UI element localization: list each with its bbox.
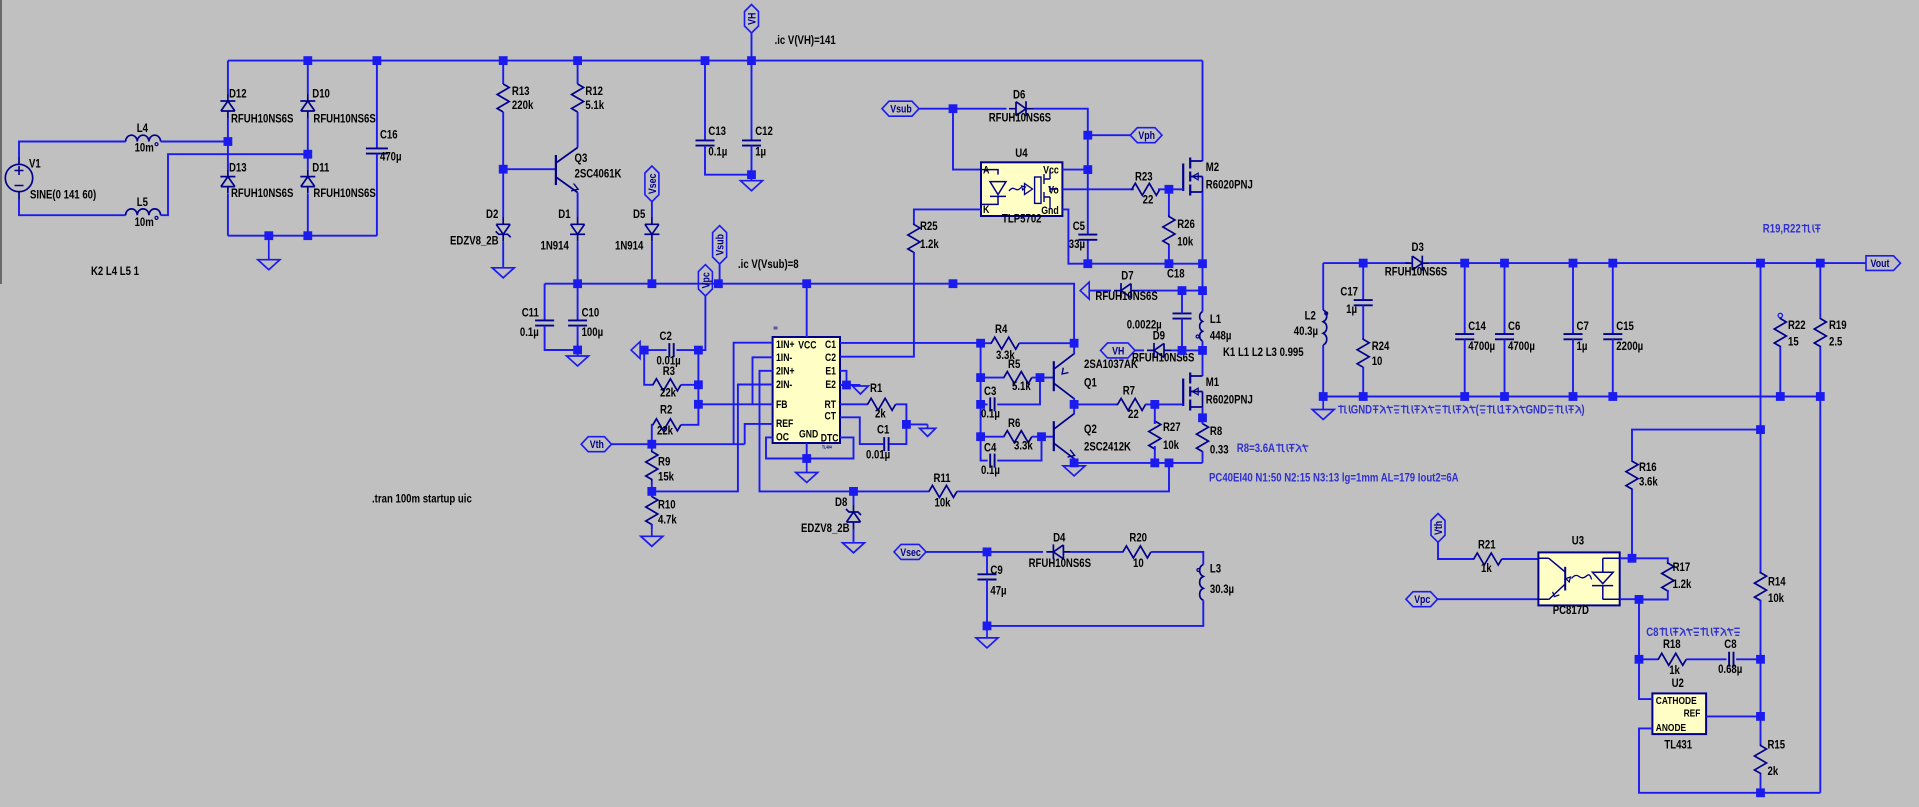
- ground Q2: [1063, 463, 1085, 476]
- svg-text:Q3: Q3: [575, 151, 588, 165]
- svg-text:EDZV8_2B: EDZV8_2B: [450, 234, 499, 248]
- svg-text:R14: R14: [1768, 574, 1786, 588]
- junction R6 C4: [1037, 432, 1046, 441]
- svg-text:ANODE: ANODE: [1656, 722, 1686, 734]
- wire C18 top lead: [1181, 291, 1183, 314]
- wire driver to R7: [1074, 403, 1118, 405]
- junction C18 bottom: [1178, 346, 1187, 355]
- svg-text:1N914: 1N914: [541, 239, 570, 253]
- svg-text:1.2k: 1.2k: [1673, 577, 1692, 591]
- wire Vout divider upper: [1760, 430, 1762, 574]
- wire Q1 collector lead: [1073, 398, 1075, 405]
- svg-text:C16: C16: [380, 128, 398, 142]
- capacitor C1: [884, 437, 888, 451]
- capacitor C2: [669, 343, 673, 357]
- wire C17 to R24: [1362, 305, 1364, 339]
- wire C16 top lead: [376, 61, 378, 149]
- ground R10: [641, 529, 663, 546]
- svg-text:D1: D1: [558, 207, 571, 221]
- svg-text:D9: D9: [1153, 329, 1166, 343]
- svg-text:R22: R22: [1788, 318, 1806, 332]
- wire D12 top lead: [227, 61, 229, 94]
- junction Vsub flag: [714, 279, 723, 288]
- wire R17 bottom: [1639, 590, 1668, 600]
- svg-text:100µ: 100µ: [582, 325, 604, 339]
- ground secondary: [1312, 397, 1334, 420]
- comment transformer spec: [1209, 470, 1459, 484]
- wire C2 right lead: [676, 349, 698, 351]
- shunt regulator U2 TL431: [1652, 693, 1706, 734]
- wire L4 to bridge node: [161, 141, 228, 143]
- wire R6 to Q2 base: [1032, 436, 1054, 438]
- svg-text:V1: V1: [29, 156, 41, 170]
- junction Vcc tap: [1083, 165, 1092, 174]
- wire REF jog: [745, 424, 773, 444]
- svg-text:22: 22: [1143, 193, 1154, 207]
- wire FB column: [681, 350, 698, 425]
- wire R13 bottom lead: [502, 112, 504, 169]
- ground D2: [492, 267, 514, 278]
- ground bridge: [258, 236, 280, 270]
- svg-text:0.1µ: 0.1µ: [981, 407, 1000, 421]
- svg-text:C10: C10: [582, 306, 600, 320]
- capacitor C17: [1354, 300, 1373, 305]
- resistor R23: [1132, 183, 1160, 195]
- diode D5: [644, 217, 659, 241]
- svg-text:10m: 10m: [135, 215, 154, 229]
- wire R26 top lead: [1168, 189, 1170, 215]
- svg-text:47µ: 47µ: [990, 584, 1006, 598]
- svg-text:4700µ: 4700µ: [1508, 339, 1535, 353]
- junction R18 left: [1635, 655, 1644, 664]
- junction C13 top: [701, 56, 710, 65]
- svg-text:R16: R16: [1639, 460, 1657, 474]
- svg-text:PC817D: PC817D: [1553, 603, 1590, 617]
- junction C6 top: [1500, 259, 1509, 268]
- svg-text:10: 10: [1372, 354, 1383, 368]
- ground E1E2: [852, 385, 868, 394]
- wire C17 top lead: [1362, 263, 1364, 300]
- svg-text:DTC: DTC: [821, 433, 839, 445]
- ground C10: [567, 350, 589, 366]
- wire R12 bottom lead: [577, 112, 579, 148]
- resistor R27: [1149, 421, 1161, 449]
- wire Vth to R21: [1438, 542, 1474, 559]
- resistor R16: [1626, 461, 1638, 490]
- junction Q3 base node: [499, 165, 508, 174]
- net flag Vout: [1866, 256, 1901, 271]
- wire R5 left lead: [981, 377, 1004, 379]
- wire D8 top lead: [853, 491, 855, 505]
- svg-text:L5: L5: [137, 195, 148, 209]
- ground C9: [976, 626, 998, 648]
- wire R24 bottom lead: [1362, 367, 1364, 397]
- svg-text:1: 1: [1500, 402, 1506, 416]
- junction bridge left mid: [224, 137, 233, 146]
- svg-text:R20: R20: [1129, 530, 1147, 544]
- svg-text:D7: D7: [1121, 269, 1134, 283]
- junction feedback top: [1756, 259, 1765, 268]
- wire D6 to C5 column: [1033, 109, 1088, 235]
- svg-text:K1 L1 L2 L3 0.995: K1 L1 L2 L3 0.995: [1223, 345, 1304, 359]
- wire TL431 ref: [1706, 715, 1760, 717]
- junction C14 top: [1460, 259, 1469, 268]
- diode D4: [1046, 544, 1070, 559]
- wire U4 Gnd to source rail: [1062, 209, 1202, 263]
- resistor R19: [1814, 318, 1826, 347]
- junction R22 gnd: [1776, 392, 1785, 401]
- wire R10 bottom lead: [651, 524, 653, 529]
- svg-text:R25: R25: [920, 219, 938, 233]
- svg-text:C18: C18: [1167, 266, 1185, 280]
- wire TL431 cathode: [1639, 659, 1652, 699]
- wire C3 right lead: [997, 378, 1040, 405]
- junction R26 top: [1165, 185, 1174, 194]
- diode D9: [1147, 343, 1171, 358]
- wire Vout to divider: [1760, 263, 1762, 430]
- junction R16 row: [1756, 425, 1765, 434]
- wire C11 bottom lead: [545, 326, 578, 350]
- diode D7: [1114, 283, 1138, 298]
- net flag Vth: [581, 437, 611, 452]
- junction D10 top: [303, 56, 312, 65]
- svg-text:Vpc: Vpc: [1414, 594, 1430, 606]
- svg-text:C1: C1: [877, 423, 890, 437]
- resistor R13: [497, 84, 509, 112]
- wire C16 bottom lead: [376, 154, 378, 236]
- wire R19 top lead: [1819, 263, 1821, 318]
- wire R27 top lead: [1154, 404, 1156, 424]
- svg-text:1IN+: 1IN+: [776, 339, 795, 351]
- svg-text:D6: D6: [1013, 87, 1026, 101]
- junction C14 gnd: [1460, 392, 1469, 401]
- svg-text:RFUH10NS6S: RFUH10NS6S: [1029, 556, 1091, 570]
- wire D12 bottom lead: [227, 118, 229, 142]
- wire R7 to M1 gate: [1145, 403, 1183, 405]
- svg-text:D5: D5: [633, 207, 646, 221]
- inductor L3 aux winding: [1197, 565, 1203, 601]
- junction FB: [694, 400, 703, 409]
- junction E1 E2: [842, 381, 851, 390]
- junction C8 right: [1756, 655, 1765, 664]
- svg-text:C17: C17: [1340, 284, 1358, 298]
- resistor R24: [1357, 339, 1369, 367]
- resistor R4: [991, 337, 1019, 349]
- wire Vout rail: [1429, 262, 1865, 264]
- svg-text:15k: 15k: [658, 470, 674, 484]
- comment C8 stability: [1646, 625, 1740, 639]
- inductor L5: [126, 209, 161, 220]
- wire Q3 base: [503, 168, 556, 170]
- capacitor C16: [366, 148, 388, 153]
- junction D8 top: [849, 487, 858, 496]
- capacitor C10: [568, 320, 587, 325]
- junction R3 right: [694, 380, 703, 389]
- wire D13 top lead: [227, 142, 229, 170]
- wire U3 collector out: [1620, 557, 1632, 559]
- wire E1: [840, 371, 847, 385]
- svg-text:D4: D4: [1053, 530, 1066, 544]
- svg-text:PC40EI40 N1:50 N2:15 N3:13 lg=: PC40EI40 N1:50 N2:15 N3:13 lg=1mm AL=179…: [1209, 470, 1459, 484]
- wire R1 to junction: [896, 404, 907, 424]
- wire Vsec flag to D5: [651, 202, 653, 218]
- svg-text:Vcc: Vcc: [1043, 165, 1059, 177]
- diode D3: [1405, 256, 1429, 271]
- svg-text:VH: VH: [747, 13, 759, 25]
- wire R18 to C8: [1687, 658, 1727, 660]
- svg-text:0.01µ: 0.01µ: [866, 448, 890, 462]
- junction U3 emitter: [1635, 595, 1644, 604]
- junction C9 ground: [983, 622, 992, 631]
- wire V1 bottom to L5: [19, 199, 126, 215]
- opto-isolator U3 PC817D: [1538, 552, 1619, 605]
- junction C9 top: [983, 548, 992, 557]
- transistor M1 R6020PNJ: [1183, 373, 1202, 411]
- wire arrow to D7: [1089, 290, 1111, 292]
- wire D8 bottom lead: [853, 529, 855, 542]
- svg-text:RFUH10NS6S: RFUH10NS6S: [313, 112, 375, 126]
- svg-text:CT: CT: [825, 411, 837, 423]
- wire Vsec row: [926, 551, 1043, 553]
- svg-text:C4: C4: [984, 441, 997, 455]
- wire C11 top lead: [544, 284, 546, 321]
- svg-text:R19,R22: R19,R22: [1763, 222, 1801, 236]
- wire C6 bottom lead: [1504, 339, 1506, 396]
- svg-text:M2: M2: [1206, 160, 1220, 174]
- wire driver bottom rail: [1074, 462, 1202, 464]
- svg-text:1µ: 1µ: [755, 144, 766, 158]
- svg-text:Vsub: Vsub: [890, 104, 912, 116]
- svg-text:15: 15: [1788, 334, 1799, 348]
- resistor R7: [1118, 398, 1146, 410]
- wire U4 anode: [953, 109, 981, 170]
- svg-text:C2: C2: [660, 329, 673, 343]
- resistor R18: [1658, 653, 1687, 665]
- svg-text:L1: L1: [1210, 312, 1221, 326]
- wire E2: [840, 384, 860, 386]
- svg-text:1µ: 1µ: [1346, 302, 1357, 316]
- svg-text:R5: R5: [1008, 357, 1021, 371]
- svg-text:R23: R23: [1135, 169, 1153, 183]
- svg-text:E2: E2: [825, 379, 836, 391]
- svg-text:C14: C14: [1468, 319, 1486, 333]
- wire source rail to L1: [1202, 264, 1204, 312]
- wire C5 bottom lead: [1087, 240, 1089, 264]
- resistor R22: [1774, 318, 1786, 347]
- capacitor C3: [990, 397, 994, 411]
- svg-text:R3: R3: [663, 364, 676, 378]
- wire GND stem: [806, 443, 808, 459]
- wire L1 to M1 drain: [1202, 350, 1204, 376]
- svg-text:2IN+: 2IN+: [776, 365, 795, 377]
- wire Vsub flag stem: [719, 264, 721, 284]
- svg-text:30.3µ: 30.3µ: [1210, 582, 1234, 596]
- wire U4 Vo to R23: [1062, 188, 1133, 190]
- svg-text:GND: GND: [1526, 402, 1548, 416]
- svg-text:2IN-: 2IN-: [776, 379, 793, 391]
- inductor L2 secondary: [1323, 310, 1328, 345]
- wire VH to M2 drain: [1202, 61, 1204, 161]
- junction driver output: [1070, 400, 1079, 409]
- svg-text:R8=3.6A: R8=3.6A: [1237, 441, 1275, 455]
- wire to R16: [1632, 430, 1761, 461]
- wire L2 top to D3: [1323, 262, 1408, 264]
- svg-text:1µ: 1µ: [1577, 339, 1588, 353]
- svg-text:C12: C12: [755, 124, 773, 138]
- wire driver left column: [980, 343, 982, 437]
- svg-text:10k: 10k: [1177, 235, 1193, 249]
- capacitor C13: [696, 140, 715, 145]
- wire R11 to R8 sense: [957, 463, 1169, 492]
- svg-text:A: A: [983, 165, 989, 177]
- svg-text:REF: REF: [776, 418, 794, 430]
- wire R26 bottom lead: [1168, 246, 1170, 264]
- svg-text:R2: R2: [660, 402, 673, 416]
- svg-text:C13: C13: [708, 124, 726, 138]
- wire R3 right lead: [681, 384, 698, 386]
- svg-text:VCC: VCC: [798, 340, 816, 352]
- wire to R11: [854, 490, 929, 492]
- diode D8 zener: [846, 505, 861, 529]
- svg-text:C8: C8: [1646, 625, 1659, 639]
- wire VH top rail: [228, 60, 1203, 62]
- junction C2 right: [694, 346, 703, 355]
- svg-text:R13: R13: [512, 84, 530, 98]
- resistor R11: [929, 485, 958, 497]
- wire FB: [698, 403, 772, 405]
- wire D13 bottom lead: [227, 194, 229, 236]
- svg-text:D10: D10: [312, 86, 330, 100]
- svg-text:1N914: 1N914: [615, 239, 644, 253]
- capacitor C8: [1729, 652, 1733, 667]
- svg-text:U3: U3: [1572, 534, 1585, 548]
- svg-text:D8: D8: [835, 495, 848, 509]
- resistor R9: [646, 450, 658, 481]
- junction R19 gnd: [1816, 392, 1825, 401]
- junction R27 bottom: [1150, 459, 1159, 468]
- svg-text:R10: R10: [658, 498, 676, 512]
- svg-text:33µ: 33µ: [1069, 237, 1085, 251]
- wire L1 bottom lead: [1202, 341, 1204, 350]
- wire R8 bottom lead: [1202, 451, 1204, 463]
- svg-text:C6: C6: [1508, 319, 1521, 333]
- wire Vpc to U3: [1438, 598, 1539, 600]
- wire C18 bottom lead: [1181, 319, 1183, 351]
- svg-text:U4: U4: [1015, 146, 1028, 160]
- junction R19 top: [1816, 259, 1825, 268]
- wire C15 bottom lead: [1612, 339, 1614, 396]
- svg-text:10k: 10k: [1163, 438, 1179, 452]
- junction R5 left: [976, 373, 985, 382]
- svg-text:D3: D3: [1412, 240, 1425, 254]
- wire L5 to bridge right mid: [161, 154, 308, 215]
- wire C12 top lead: [751, 61, 753, 141]
- svg-text:C8: C8: [1724, 637, 1737, 651]
- capacitor C14: [1455, 334, 1474, 339]
- wire VH to D9: [1135, 349, 1144, 351]
- svg-text:0.1µ: 0.1µ: [708, 144, 727, 158]
- junction C6 gnd: [1500, 392, 1509, 401]
- junction C7 top: [1569, 259, 1578, 268]
- resistor R25: [908, 224, 920, 252]
- svg-text:C9: C9: [990, 563, 1003, 577]
- wire C10 top lead: [577, 284, 579, 321]
- wire to R17: [1632, 558, 1668, 564]
- wire 2IN+ to current sense: [760, 371, 854, 492]
- diode D6: [1009, 101, 1033, 116]
- capacitor C11: [535, 320, 554, 325]
- svg-text:RFUH10NS6S: RFUH10NS6S: [989, 111, 1051, 125]
- wire D10 top lead: [307, 61, 309, 94]
- diode D2: [496, 217, 511, 241]
- wire R16 bottom lead: [1631, 490, 1633, 559]
- svg-text:R18: R18: [1663, 637, 1681, 651]
- wire secondary ground rail: [1323, 396, 1820, 398]
- junction VCC stem: [802, 279, 811, 288]
- wire C7 top lead: [1572, 263, 1574, 334]
- svg-text:L3: L3: [1210, 562, 1221, 576]
- wire C6 top lead: [1504, 263, 1506, 334]
- svg-text:3.3k: 3.3k: [1014, 439, 1033, 453]
- svg-text:D11: D11: [312, 161, 329, 175]
- wire 1IN+ to Vth: [734, 343, 773, 445]
- svg-text:Vsub: Vsub: [715, 234, 727, 256]
- svg-text:.ic V(VH)=141: .ic V(VH)=141: [775, 33, 836, 47]
- svg-text:R27: R27: [1163, 420, 1181, 434]
- junction GND node: [802, 454, 811, 463]
- junction M2 source rail: [1198, 259, 1207, 268]
- resistor R2: [653, 419, 682, 431]
- wire C7 bottom lead: [1572, 339, 1574, 396]
- svg-text:D13: D13: [229, 161, 247, 175]
- svg-text:TL494: TL494: [822, 444, 832, 449]
- resistor R15: [1755, 744, 1767, 775]
- wire D2 bottom lead: [502, 241, 504, 266]
- svg-text:C1: C1: [825, 339, 836, 351]
- wire 1IN- to FB: [753, 357, 773, 404]
- junction bottom rail R15: [1756, 788, 1765, 797]
- svg-text:R17: R17: [1673, 560, 1691, 574]
- resistor R3: [653, 379, 682, 391]
- svg-text:2k: 2k: [1768, 764, 1779, 778]
- wire D11 bottom lead: [307, 194, 309, 236]
- svg-text:C15: C15: [1616, 319, 1634, 333]
- svg-text:RFUH10NS6S: RFUH10NS6S: [1385, 265, 1447, 279]
- svg-text:RFUH10NS6S: RFUH10NS6S: [231, 112, 293, 126]
- svg-text:(: (: [1476, 402, 1479, 416]
- wire Vpc flag stem: [698, 296, 705, 350]
- svg-text:R6020PNJ: R6020PNJ: [1206, 178, 1253, 192]
- junction M1 source R8: [1198, 413, 1207, 422]
- ground RT CT: [920, 424, 936, 436]
- wire R22 bottom lead: [1779, 347, 1781, 397]
- svg-text:R11: R11: [934, 471, 951, 485]
- wire R13 top lead: [502, 61, 504, 84]
- junction R26 bottom: [1165, 259, 1174, 268]
- svg-text:CATHODE: CATHODE: [1656, 695, 1697, 707]
- diode D11: [300, 170, 315, 194]
- svg-text:R6: R6: [1008, 416, 1021, 430]
- junction sense tap: [1165, 459, 1174, 468]
- svg-text:10: 10: [1133, 556, 1144, 570]
- resistor R1: [867, 398, 895, 410]
- wire RT to R1: [840, 403, 867, 405]
- junction Q1 emitter node: [1070, 339, 1079, 348]
- wire D1 to Vsub rail: [577, 241, 579, 283]
- transistor Q3 2SC4061K: [556, 148, 578, 193]
- wire R9 top lead: [651, 444, 653, 450]
- wire R8 top lead: [1202, 418, 1204, 424]
